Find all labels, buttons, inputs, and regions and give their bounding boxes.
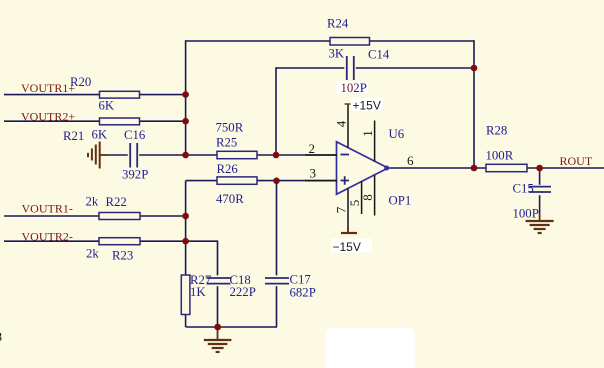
svg-text:100P: 100P [513,207,539,221]
wire C18 branch [186,241,218,327]
node junction C15 ROUT [536,165,543,172]
node junction R21 row [182,118,189,125]
ground below C15 [526,213,554,233]
svg-text:VOUTR2-: VOUTR2- [22,230,73,244]
svg-text:C16: C16 [124,128,146,142]
svg-text:6: 6 [407,153,414,168]
wire C15 branch [539,168,541,214]
svg-text:C15: C15 [513,182,534,196]
svg-text:682P: 682P [290,286,316,300]
node VOUTR2+ [21,110,75,124]
svg-text:VOUTR2+: VOUTR2+ [21,110,75,124]
wire VOUTR1- row [4,215,186,217]
node junction C16/R25 row [182,152,189,159]
svg-text:100R: 100R [486,149,514,163]
svg-text:U6: U6 [389,127,405,141]
svg-text:C17: C17 [290,273,312,287]
ground left of C16 [88,142,107,169]
svg-text:VOUTR1-: VOUTR1- [22,202,73,216]
capacitor C17 [265,273,316,300]
svg-text:4: 4 [334,120,349,127]
wire right vertical feedback [473,40,475,168]
svg-text:3K: 3K [329,47,345,61]
resistor R24 [327,17,370,61]
wire VOUTR1+ row [4,94,186,96]
resistor R28 [486,124,528,172]
wire R25 row to pin 2 [186,154,337,156]
node VOUTR1+ [21,81,75,95]
wire C17 branch [276,181,278,327]
node junction C17 to R26 [273,178,280,185]
node junction C14 to R25 [273,152,280,159]
svg-text:7: 7 [334,206,349,213]
resistor R21 [63,118,140,143]
op-amp pin 8 [360,175,375,216]
wire node B vertical to R27 [185,181,187,275]
svg-text:8: 8 [0,329,2,344]
svg-text:750R: 750R [216,121,244,135]
svg-text:R24: R24 [327,17,349,31]
node VOUTR1- [22,202,73,216]
node junction R20 row [182,91,189,98]
wire R26 row to pin 3 [186,180,337,182]
wire left vertical node A [185,40,187,155]
svg-text:OP1: OP1 [389,194,412,208]
svg-text:ROUT: ROUT [560,154,593,168]
svg-text:−15V: −15V [333,240,361,254]
resistor R23 [86,238,140,263]
resistor R27 [181,273,212,315]
ground bottom center [204,327,232,352]
op-amp pin 4 [334,104,349,148]
svg-text:2: 2 [309,141,316,156]
power -15V [331,225,372,254]
node junction C14 right [471,65,478,72]
wire bottom rail [186,326,277,328]
svg-text:+15V: +15V [353,98,381,112]
svg-text:1: 1 [360,130,375,137]
svg-text:R22: R22 [106,195,127,209]
resistor R20 [70,75,140,113]
node junction R23 row [182,238,189,245]
wire C14 row [276,67,474,69]
svg-text:392P: 392P [122,168,148,182]
node ROUT [560,154,593,168]
wire top feedback horizontal [186,40,474,42]
wire VOUTR2+ row [4,120,186,122]
svg-text:R28: R28 [486,124,507,138]
svg-text:VOUTR1+: VOUTR1+ [21,81,75,95]
capacitor C16 [122,128,148,182]
wire C16 row [106,154,186,156]
wire VOUTR2- row [4,240,186,242]
svg-text:2k: 2k [86,247,99,261]
svg-text:8: 8 [360,194,375,201]
white tooltip rectangle bottom [326,328,415,368]
svg-text:102P: 102P [341,81,367,95]
stray digit left edge [0,329,2,344]
op-amp pin 7 [334,189,349,233]
svg-text:2k: 2k [86,195,99,209]
resistor R26 [216,162,257,206]
svg-text:3: 3 [310,166,317,181]
node VOUTR2- [22,230,73,244]
node junction output feedback [471,165,478,172]
resistor R22 [86,195,141,220]
capacitor C14 [344,48,390,81]
op-amp pin 2 [305,141,337,156]
wire C14 left vertical [275,67,277,155]
op-amp pin 3 [305,166,337,181]
svg-text:R21: R21 [63,129,84,143]
op-amp pin 6 [407,153,414,168]
resistor R25 [216,121,258,159]
capacitor C14 value 102P [336,81,369,95]
svg-text:R26: R26 [217,162,239,176]
svg-text:R25: R25 [216,136,237,150]
wire output row to ROUT [388,167,604,169]
op-amp pin 1 [360,121,375,162]
svg-text:C14: C14 [368,48,390,62]
svg-text:470R: 470R [216,192,244,206]
wire R27 bottom to rail [185,315,187,328]
svg-text:R23: R23 [112,249,133,263]
node junction bottom rail ground [214,324,221,331]
svg-text:6K: 6K [99,99,115,113]
node junction R22 row [182,213,189,220]
svg-text:6K: 6K [92,128,108,142]
capacitor C15 [513,182,552,221]
op-amp U1 triangle [337,127,412,208]
op-amp pin 5 [347,182,362,215]
svg-text:1K: 1K [190,285,206,299]
capacitor C18 [207,273,256,299]
svg-text:222P: 222P [230,285,256,299]
power +15V [345,98,383,113]
